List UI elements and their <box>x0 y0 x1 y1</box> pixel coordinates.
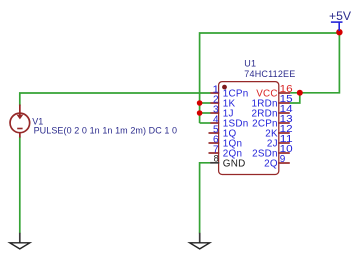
op IC U1 74HC112EE body <box>219 82 279 175</box>
pin 6 stub <box>209 142 220 144</box>
wire +5V top rail <box>200 33 340 123</box>
junction dot pin 2 net <box>197 100 203 106</box>
pin 9 stub <box>278 162 290 164</box>
svg-text:+5V: +5V <box>329 9 352 23</box>
pin 4 stub <box>210 122 219 124</box>
ground GND left <box>10 233 30 249</box>
pin-1 indicator dot <box>222 85 227 90</box>
voltage source V1 <box>10 105 30 138</box>
pin 7 stub <box>209 152 220 154</box>
pin 1 stub <box>210 92 219 94</box>
wire V1 top to pin 1 (net A) <box>20 93 211 106</box>
pin 15 stub <box>278 102 290 104</box>
pin 8 stub (GND, gray) <box>210 162 219 164</box>
power flag +5V <box>329 9 352 31</box>
pin 5 stub <box>209 132 220 134</box>
svg-text:74HC112EE: 74HC112EE <box>244 69 295 79</box>
svg-text:9: 9 <box>280 154 286 165</box>
svg-text:2Q: 2Q <box>264 158 278 169</box>
pin 14 stub <box>278 112 290 114</box>
junction dot +5V node <box>336 29 342 35</box>
svg-text:PULSE(0 2 0 1n 1n 1m 2m) DC 1: PULSE(0 2 0 1n 1n 1m 2m) DC 1 0 <box>34 125 178 135</box>
pin 10 stub <box>278 152 290 154</box>
pin 2 stub <box>210 102 219 104</box>
ground GND middle <box>190 233 210 249</box>
pin 16 stub <box>278 92 290 94</box>
wire to pin 2 <box>200 102 211 104</box>
wire junction drop to pin 15 <box>290 93 300 103</box>
junction dot pin 16 net <box>297 90 303 96</box>
pin 3 stub <box>210 112 219 114</box>
svg-text:U1: U1 <box>244 59 256 69</box>
wire V1 bottom to ground <box>19 137 21 234</box>
pin 11 stub <box>278 142 290 144</box>
pin 13 stub <box>278 122 290 124</box>
wire pin 8 to ground <box>200 163 211 234</box>
svg-text:GND: GND <box>223 158 246 169</box>
wire to pin 4 <box>200 122 211 124</box>
wire +5V right drop to pin 16 <box>290 33 339 93</box>
junction dot pin 3 net <box>197 110 203 116</box>
wire to pin 3 <box>200 112 211 114</box>
pin 12 stub <box>278 132 290 134</box>
svg-text:8: 8 <box>214 153 220 163</box>
